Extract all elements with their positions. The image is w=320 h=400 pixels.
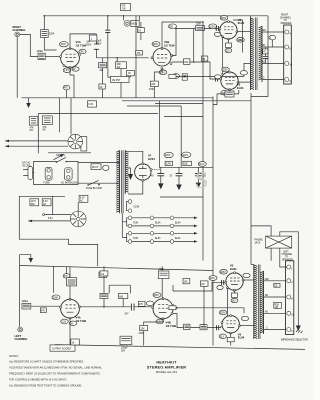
T1 core xyxy=(122,150,124,213)
label box 6.3V near bus xyxy=(88,101,97,107)
svg-text:EL84: EL84 xyxy=(238,21,245,25)
voltage ovals V4A xyxy=(52,295,77,326)
svg-text:600V: 600V xyxy=(86,45,92,47)
svg-text:1MEG: 1MEG xyxy=(37,51,44,53)
svg-text:AC INTERLOCK: AC INTERLOCK xyxy=(61,182,78,185)
bottom ground bus xyxy=(55,345,305,350)
svg-text:225V: 225V xyxy=(153,44,159,46)
fuse holder xyxy=(44,167,53,184)
V4A cathode drop xyxy=(69,318,71,345)
svg-text:117V AC: 117V AC xyxy=(22,162,31,165)
svg-text:VOLTAGES TAKEN WITH AN 11 MEGO: VOLTAGES TAKEN WITH AN 11 MEGOHM VTVM. N… xyxy=(9,365,103,369)
svg-text:TO: TO xyxy=(285,257,288,259)
vertical wires to socket area xyxy=(60,98,72,135)
svg-text:IMPEDANCE SELECTOR: IMPEDANCE SELECTOR xyxy=(281,338,308,341)
svg-text:470K: 470K xyxy=(138,333,144,335)
svg-text:16Ω: 16Ω xyxy=(262,30,267,32)
pentode V2 EL84 xyxy=(219,21,238,40)
svg-text:1K: 1K xyxy=(100,87,103,89)
label left channel to speaker xyxy=(282,251,294,261)
voltage oval below V1B xyxy=(159,70,167,75)
vertical in splitter network xyxy=(193,29,195,63)
svg-text:325V: 325V xyxy=(165,155,171,157)
svg-text:1.5V: 1.5V xyxy=(64,70,69,72)
pot box above bus xyxy=(111,77,130,83)
svg-text:325V: 325V xyxy=(220,313,226,315)
svg-text:1K: 1K xyxy=(72,342,75,344)
svg-text:1/2 7199: 1/2 7199 xyxy=(166,324,177,328)
resistor on bus x102 xyxy=(99,84,105,89)
oval 25K on splitter upper xyxy=(169,24,177,29)
voltage ovals V5 xyxy=(217,270,250,290)
heater pair V7 GZ34 xyxy=(127,200,140,213)
phase switch bottom wires xyxy=(271,250,287,267)
svg-text:325V: 325V xyxy=(220,272,226,274)
voltage oval above V1B xyxy=(152,42,160,47)
chassis ground right xyxy=(296,326,303,334)
speaker tap wire 16 ohm xyxy=(262,31,284,33)
svg-text:47K: 47K xyxy=(139,304,144,306)
junction dots bottom splitter xyxy=(176,307,178,309)
vertical inside heater section xyxy=(52,196,54,214)
oval resistor on bottom bus xyxy=(63,267,70,279)
label V5 EL84 xyxy=(230,264,237,271)
svg-text:V4B: V4B xyxy=(166,321,171,325)
svg-text:CHANNEL: CHANNEL xyxy=(280,16,292,19)
svg-text:22K: 22K xyxy=(141,328,146,330)
svg-text:1M: 1M xyxy=(201,284,204,286)
svg-text:220K: 220K xyxy=(53,297,59,299)
input jack J2 drop xyxy=(19,255,21,327)
svg-text:NE51: NE51 xyxy=(132,24,138,26)
resistor box upper splitter xyxy=(196,24,205,31)
svg-text:EL84: EL84 xyxy=(237,86,244,90)
T3 B+ feed xyxy=(251,264,254,266)
svg-text:AC: AC xyxy=(43,203,47,206)
screen rail between V2 V3 xyxy=(221,37,223,74)
AC interlock xyxy=(61,168,78,185)
svg-text:78V: 78V xyxy=(80,52,85,54)
T1 HV secondary bottom to rectifier xyxy=(128,180,143,194)
T3 secondary xyxy=(260,271,263,334)
svg-text:6.3V: 6.3V xyxy=(80,197,85,199)
svg-text:225V: 225V xyxy=(154,295,160,297)
V5 cathode parts xyxy=(231,290,238,302)
input jack J2 left channel xyxy=(18,327,23,332)
speaker terminal strip left channel xyxy=(286,261,295,335)
svg-text:220K: 220K xyxy=(49,34,55,36)
resistor 1M below wire xyxy=(99,58,107,98)
svg-text:1.5V: 1.5V xyxy=(160,72,165,74)
svg-text:6.3V: 6.3V xyxy=(88,104,93,106)
svg-text:470K: 470K xyxy=(149,89,155,91)
small box on L network xyxy=(127,71,135,76)
resistor box filter2 xyxy=(183,161,191,165)
heater row 3 xyxy=(127,232,198,244)
svg-text:V1B: V1B xyxy=(164,40,169,44)
svg-text:V7: V7 xyxy=(148,154,152,158)
label V7 GZ34 xyxy=(148,154,155,161)
cathode resistor on bus x66 xyxy=(63,85,70,98)
resistor box on plate feed xyxy=(138,22,145,40)
wire jack ground drop xyxy=(16,37,18,98)
coupling cap to V3 grid xyxy=(215,77,217,82)
svg-text:215V: 215V xyxy=(210,278,216,280)
svg-text:325V: 325V xyxy=(221,18,227,20)
rectifier output dotted xyxy=(152,167,160,169)
svg-text:NOTES:: NOTES: xyxy=(9,354,19,358)
vertical x53 bottom xyxy=(52,266,54,292)
splitter lower wire to V6 xyxy=(173,314,221,328)
triode V1A xyxy=(60,48,81,69)
svg-text:16Ω: 16Ω xyxy=(265,279,270,281)
power transformer T1 primary xyxy=(116,150,119,213)
svg-text:V3: V3 xyxy=(237,83,241,87)
neon lamp NE-51 xyxy=(124,16,140,27)
svg-text:10K: 10K xyxy=(184,281,189,283)
T2 secondary winding xyxy=(259,26,262,82)
svg-text:220K: 220K xyxy=(196,24,202,26)
bypass cap 20uF 450V from bus xyxy=(96,16,110,68)
svg-text:6.3V: 6.3V xyxy=(48,218,53,220)
svg-text:4Ω: 4Ω xyxy=(265,311,268,313)
svg-text:4Ω: 4Ω xyxy=(262,61,265,63)
plate resistor V4A xyxy=(67,266,77,299)
svg-text:1.5V: 1.5V xyxy=(62,322,67,324)
wire coupling to V1B grid xyxy=(96,57,148,59)
voltage oval 325V filter1 xyxy=(164,152,173,157)
heater bus drop from T1 xyxy=(122,213,126,237)
wire jack to grid resistor xyxy=(20,34,38,56)
grid resistor 1MEG xyxy=(37,51,46,60)
resistor 47K on grid wire xyxy=(136,51,143,55)
svg-text:117V: 117V xyxy=(31,201,37,203)
label V3 EL84 xyxy=(237,83,244,90)
voltage ovals V3 xyxy=(215,67,248,95)
mid control box top edge xyxy=(38,113,158,115)
label V2 EL84 xyxy=(238,18,245,25)
svg-text:8Ω: 8Ω xyxy=(262,45,265,47)
vertical resistor box lower splitter xyxy=(182,74,187,80)
svg-text:5%: 5% xyxy=(43,129,46,131)
V4B cathode network 22K xyxy=(138,319,163,346)
pentode V6 EL84 xyxy=(221,315,240,334)
voltage ovals V6 xyxy=(219,310,248,338)
T2 core xyxy=(255,18,257,91)
svg-text:GZ34: GZ34 xyxy=(134,207,140,209)
cathode V1A to ground bus xyxy=(70,67,74,97)
svg-text:8Ω: 8Ω xyxy=(265,295,268,297)
resistor boxes lower splitter xyxy=(184,56,208,64)
svg-text:OFF-ON: OFF-ON xyxy=(56,155,65,157)
plate feed V4B xyxy=(158,266,169,298)
splitter upper wire to V2 grid xyxy=(172,29,220,56)
AC wires to transformer primary xyxy=(78,163,120,184)
tap labels bottom xyxy=(265,279,270,330)
V5 plate to OPT2 xyxy=(243,279,254,281)
triode V4A xyxy=(60,298,81,319)
output transformer T3 primary xyxy=(254,265,257,340)
speaker tap wire common xyxy=(262,79,284,81)
B+ rail left xyxy=(212,97,214,346)
svg-text:RIGHT: RIGHT xyxy=(281,15,289,17)
svg-text:CAN: CAN xyxy=(166,163,171,166)
wide box on bottom bus xyxy=(50,345,75,351)
screen feed resistor on stub xyxy=(217,90,239,97)
voltage oval left of lower splitter xyxy=(172,74,179,79)
svg-text:1/2 7199: 1/2 7199 xyxy=(164,44,175,48)
junction dot xyxy=(103,306,105,308)
wire above AC box xyxy=(48,152,91,154)
tap wires T3 to strip xyxy=(264,281,286,330)
svg-text:TO: TO xyxy=(284,20,287,22)
phase switch crossed box xyxy=(266,235,292,250)
screen tap wires to transformer xyxy=(233,20,243,53)
svg-text:TOP CONTROLS VIEWED WITH 14 V: TOP CONTROLS VIEWED WITH 14 V AC INPUT. xyxy=(9,377,67,381)
coupling wire V4A to V4B xyxy=(79,306,131,308)
coupling cap bottom xyxy=(124,304,153,316)
V6 cathode drop xyxy=(227,333,234,346)
svg-text:GZ34: GZ34 xyxy=(148,157,155,161)
bottom channel B+ bus xyxy=(20,266,214,271)
svg-text:CHANNEL: CHANNEL xyxy=(15,337,28,341)
T3 core xyxy=(258,265,260,340)
resistor 220K plate V1A xyxy=(41,30,57,51)
svg-text:1K: 1K xyxy=(138,30,141,32)
voltage ovals V4B xyxy=(153,293,164,324)
voltage oval 320V filter2 xyxy=(182,152,191,157)
V6 plate to OPT2 xyxy=(239,325,253,327)
svg-text:SPEAKER: SPEAKER xyxy=(282,258,293,261)
cathode bypass box V4B xyxy=(120,336,132,352)
svg-text:6.3V: 6.3V xyxy=(43,201,48,203)
splitter lower wire to V3 grid xyxy=(172,62,221,79)
resistor boxes between taps xyxy=(274,283,282,309)
filter section box outline xyxy=(155,104,203,198)
label V1B 1/2 7199 xyxy=(164,40,175,47)
svg-text:.047: .047 xyxy=(86,42,91,44)
top B+ bus wire xyxy=(44,15,268,17)
voltage oval right V1A xyxy=(79,49,86,54)
svg-text:EL84: EL84 xyxy=(175,238,181,240)
T1 secondary xyxy=(125,150,128,194)
ground bus top channel xyxy=(22,97,214,99)
rotation arrow xyxy=(54,154,64,160)
resistor 1M above wire bottom xyxy=(100,285,108,307)
heater row 2 xyxy=(127,216,198,228)
svg-text:SPEAKER: SPEAKER xyxy=(281,22,292,25)
chassis outline heater section xyxy=(19,196,97,266)
svg-text:STEREO AMPLIFIER: STEREO AMPLIFIER xyxy=(147,366,186,370)
svg-text:.047: .047 xyxy=(124,314,129,316)
wire grid to V4A xyxy=(31,305,61,307)
resistor box filter1 xyxy=(165,161,172,165)
ground arrow symbol xyxy=(26,98,31,108)
label right channel to speaker xyxy=(280,15,292,25)
filter feed verticals xyxy=(160,22,203,261)
small box near V4A cathode xyxy=(71,339,80,345)
junction dots splitter xyxy=(175,28,177,30)
V2 plate to OPT xyxy=(237,31,251,33)
svg-text:60 CPS: 60 CPS xyxy=(23,165,31,167)
AC section box xyxy=(34,162,79,185)
resistor boxes lower splitter bottom xyxy=(184,324,208,330)
pentode V3 EL84 xyxy=(220,71,239,90)
svg-text:FREQUENCY RESP. 20-20,000 CPS: FREQUENCY RESP. 20-20,000 CPS TO TRANSFO… xyxy=(9,372,101,376)
svg-text:MODEL AA-151: MODEL AA-151 xyxy=(156,370,178,374)
svg-text:0V: 0V xyxy=(73,69,76,71)
wire bus to plate resistor V1A xyxy=(43,16,45,30)
label RIGHT CHANNEL xyxy=(13,25,26,32)
svg-text:HEATHKIT: HEATHKIT xyxy=(156,361,177,365)
resistor below grid wire xyxy=(40,308,46,313)
svg-text:47K: 47K xyxy=(136,53,141,55)
svg-text:PILOT: PILOT xyxy=(92,167,99,169)
junction dot xyxy=(116,57,118,59)
label box 117V xyxy=(30,199,39,206)
second bus line xyxy=(122,100,251,102)
svg-text:215V: 215V xyxy=(209,26,215,28)
triode V4B xyxy=(152,298,174,320)
L network wire xyxy=(108,68,130,77)
svg-text:60C: 60C xyxy=(31,204,36,206)
svg-text:CHANNEL: CHANNEL xyxy=(282,253,294,256)
corner and ground arrow bottom left xyxy=(20,255,34,263)
svg-text:11V: 11V xyxy=(226,51,230,53)
label box above socket 2 xyxy=(79,195,88,202)
B+ rail stub xyxy=(213,94,217,105)
third bus segment xyxy=(127,105,181,107)
svg-text:310V: 310V xyxy=(199,164,205,166)
filter cap C1 with ground xyxy=(151,167,164,189)
voltage oval 310V filter3 xyxy=(198,162,206,167)
screen rail V5 V6 xyxy=(227,288,229,317)
on-off switch xyxy=(56,155,67,163)
label LEFT CHANNEL xyxy=(15,334,28,341)
grid resistor 1MEG bottom xyxy=(22,301,31,309)
resistor boxes upper splitter bottom xyxy=(183,276,217,287)
svg-text:22K: 22K xyxy=(151,84,156,86)
resistor label 470 7W xyxy=(121,4,131,11)
svg-text:FUSE BLO IND: FUSE BLO IND xyxy=(86,188,102,190)
vertical in splitter network bottom xyxy=(203,286,205,324)
svg-text:JACK: JACK xyxy=(255,241,261,244)
svg-text:EL84: EL84 xyxy=(175,222,181,224)
speaker tap wire 4 ohm xyxy=(262,62,284,64)
svg-text:S: S xyxy=(195,168,208,194)
svg-text:220K: 220K xyxy=(60,44,66,46)
pentode V5 EL84 xyxy=(225,272,244,291)
V1B cathode network 22K xyxy=(149,69,162,98)
T2 B+ feed xyxy=(250,16,252,18)
coupling cap to V5 grid xyxy=(222,280,224,285)
pilot lamp assembly xyxy=(91,164,109,171)
rectifier V7 GZ34 xyxy=(135,163,152,181)
svg-text:10K: 10K xyxy=(184,62,189,64)
svg-text:V1A: V1A xyxy=(76,40,81,44)
svg-text:25K: 25K xyxy=(169,26,174,28)
coupling capacitor .047 600V xyxy=(86,42,99,58)
svg-text:OUTPUT SOCKET: OUTPUT SOCKET xyxy=(52,348,72,350)
svg-text:320V: 320V xyxy=(183,155,189,157)
label phase switch xyxy=(255,239,264,244)
filter cap C3 with ground xyxy=(195,167,207,188)
splitter upper wire to V5 xyxy=(173,282,226,291)
vertical left of control area xyxy=(37,114,39,154)
svg-text:ALL RESISTORS 1/2 WATT UNLESS: ALL RESISTORS 1/2 WATT UNLESS OTHERWISE … xyxy=(9,359,84,363)
svg-text:220K: 220K xyxy=(159,269,165,271)
svg-text:11V: 11V xyxy=(220,336,224,338)
svg-text:FUSE: FUSE xyxy=(44,183,51,185)
plate feed V1B from bus xyxy=(162,22,203,49)
svg-text:LEFT: LEFT xyxy=(283,251,289,253)
svg-text:1MEG: 1MEG xyxy=(22,301,29,303)
svg-text:5%: 5% xyxy=(30,130,33,132)
voltage oval above V1A xyxy=(59,42,68,47)
svg-text:V5: V5 xyxy=(230,264,234,268)
speaker terminal strip right channel xyxy=(284,25,293,84)
AC line plug xyxy=(22,162,35,180)
plate wire V1A up and over xyxy=(70,34,96,49)
label V4A 1/2 7199 xyxy=(76,316,87,323)
phase switch top wires xyxy=(251,226,298,326)
long vertical from bus x136 xyxy=(135,16,137,98)
junction dots on bus xyxy=(107,15,109,17)
tube socket S1 xyxy=(68,134,87,151)
V2 cathode parts xyxy=(225,39,232,53)
resistor 680 2W bottom xyxy=(119,293,128,306)
svg-text:325V: 325V xyxy=(222,70,228,72)
T1 HV secondary top to rectifier xyxy=(128,151,143,163)
control box AM xyxy=(29,117,38,133)
svg-text:450V: 450V xyxy=(96,44,102,46)
label V1A 1/2 7199 xyxy=(76,40,87,47)
svg-text:PHONE: PHONE xyxy=(255,239,264,241)
B+ rail right xyxy=(250,93,252,265)
svg-text:AC: AC xyxy=(80,199,84,202)
fuse blow indicator switch xyxy=(86,180,102,189)
triode V1B xyxy=(151,48,173,70)
coupling cap to V2 grid xyxy=(216,26,218,31)
svg-text:47K: 47K xyxy=(41,310,46,312)
svg-text:ALL READINGS FROM TEST POINT T: ALL READINGS FROM TEST POINT TO COMMON G… xyxy=(9,384,82,388)
snubber network R C xyxy=(263,35,276,63)
L network bottom xyxy=(109,285,130,293)
svg-text:V6: V6 xyxy=(238,332,242,336)
svg-text:1/2 7199: 1/2 7199 xyxy=(76,319,87,323)
resistor box on bottom bus xyxy=(99,272,106,278)
NFB resistor bottom xyxy=(169,306,244,314)
svg-text:EL84: EL84 xyxy=(155,238,161,240)
svg-text:EL84: EL84 xyxy=(155,222,161,224)
svg-text:EL84: EL84 xyxy=(230,267,237,271)
NFB resistor xyxy=(169,63,251,78)
wire grid resistor to V1A xyxy=(45,56,60,58)
speaker tap wire 8 ohm xyxy=(262,46,284,48)
output transformer T2 primary winding xyxy=(251,18,254,91)
svg-text:1M: 1M xyxy=(202,59,205,61)
voltage ovals below V1A xyxy=(63,67,79,73)
filter cap C2 with ground xyxy=(170,167,183,190)
box above L network xyxy=(100,266,108,285)
capacitor box .1 on plate line xyxy=(89,35,97,41)
socket wires to preamp xyxy=(5,140,68,148)
svg-text:100µF: 100µF xyxy=(121,348,128,350)
label V4B 1/2 7199 xyxy=(166,321,177,328)
voltage oval upper splitter xyxy=(209,24,217,29)
T1 center tap ground xyxy=(128,168,133,180)
svg-text:7199: 7199 xyxy=(133,238,139,240)
